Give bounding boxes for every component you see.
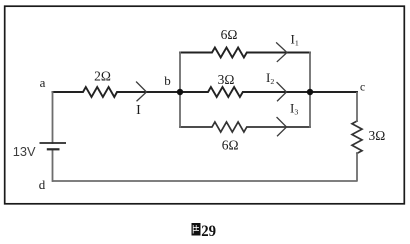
svg-text:b: b (164, 73, 171, 88)
svg-text:c: c (360, 82, 365, 94)
svg-text:3Ω: 3Ω (218, 72, 235, 87)
svg-text:29: 29 (201, 223, 216, 240)
svg-text:13V: 13V (13, 144, 36, 159)
svg-text:3Ω: 3Ω (369, 128, 386, 143)
svg-text:d: d (39, 177, 46, 192)
svg-text:2Ω: 2Ω (94, 69, 111, 84)
svg-text:6Ω: 6Ω (221, 27, 238, 42)
svg-text:I: I (136, 103, 141, 118)
svg-text:a: a (40, 75, 46, 90)
svg-text:6Ω: 6Ω (222, 138, 239, 153)
